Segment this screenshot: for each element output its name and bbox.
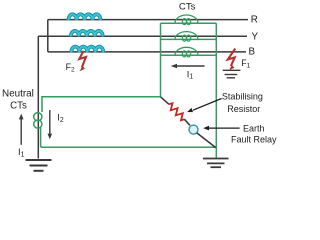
wire relay branch middle segment — [185, 119, 190, 125]
svg-text:Resistor: Resistor — [227, 104, 260, 114]
winding Y phase — [71, 31, 103, 37]
resistor stabilising zigzag — [169, 103, 185, 120]
wire CT secondary bar B — [161, 54, 217, 56]
svg-text:R: R — [251, 14, 258, 25]
neutral CT coil — [34, 113, 42, 129]
wire CT secondary right rail — [215, 23, 217, 158]
svg-text:Y: Y — [252, 32, 259, 43]
wire star-point vertical (R to B) — [47, 20, 49, 52]
wire Y phase line — [38, 35, 247, 37]
winding R phase — [69, 14, 101, 20]
wire neutral conductor vertical — [37, 36, 39, 158]
wire CT secondary bar R — [161, 22, 217, 24]
winding B phase — [71, 47, 103, 53]
wire relay branch lower segment — [197, 133, 216, 148]
svg-text:Earth: Earth — [243, 124, 265, 134]
svg-text:CTs: CTs — [179, 2, 196, 13]
arrow I2 burden loop downward — [48, 110, 53, 139]
CT R (current transformer on R line) — [175, 15, 198, 25]
wire relay branch upper segment — [161, 97, 170, 105]
wire B phase line — [48, 51, 246, 53]
wire CT secondary left rail — [160, 23, 162, 97]
arrow I1 secondary current in CT box — [171, 64, 205, 69]
arrow to stabilising resistor — [187, 99, 221, 113]
CT Y (current transformer on Y line) — [175, 32, 198, 42]
svg-text:B: B — [249, 46, 256, 57]
wire burden loop bottom rail — [41, 128, 217, 148]
ground relay earth — [203, 159, 229, 168]
arrow I1 neutral upward — [19, 114, 24, 145]
wire burden loop top rail — [42, 97, 161, 112]
wire CT secondary bar Y — [161, 38, 217, 40]
CT B (current transformer on B line) — [175, 47, 198, 57]
svg-text:Neutral: Neutral — [2, 89, 34, 100]
earth fault relay circle — [189, 125, 198, 134]
svg-text:Fault Relay: Fault Relay — [231, 134, 277, 144]
fault F1 lightning bolt — [228, 49, 235, 71]
wire R phase line — [48, 19, 248, 21]
arrow to earth fault relay — [203, 126, 239, 131]
fault F2 lightning bolt — [79, 51, 86, 72]
svg-text:Stabilising: Stabilising — [222, 91, 263, 101]
ground neutral earth — [26, 160, 52, 171]
ground fault F1 earth — [223, 70, 241, 78]
svg-text:CTs: CTs — [10, 101, 27, 112]
